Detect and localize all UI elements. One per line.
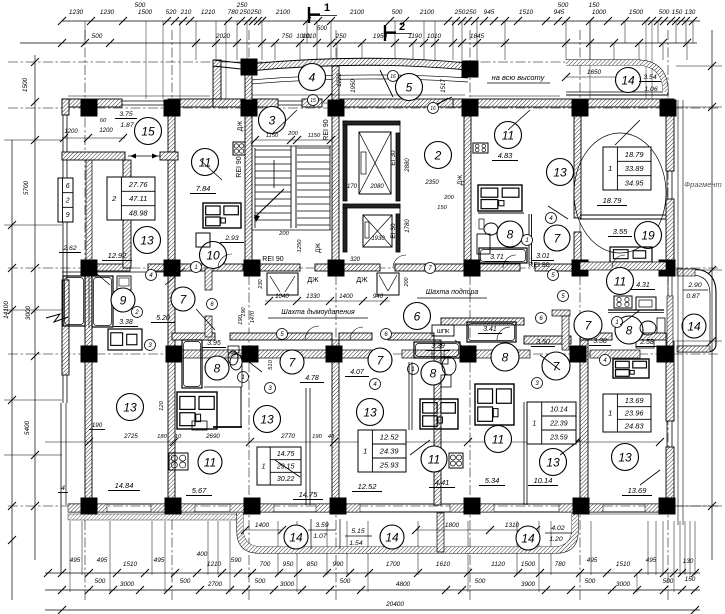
circle small c7 xyxy=(425,263,436,274)
washbasin E xyxy=(640,321,656,335)
svg-text:495: 495 xyxy=(70,557,81,564)
svg-text:150: 150 xyxy=(685,576,696,583)
svg-text:8: 8 xyxy=(214,361,221,375)
svg-text:2: 2 xyxy=(111,194,117,203)
balcony circle 14 left xyxy=(284,525,308,549)
wall apt2 bath xyxy=(478,212,524,214)
interior wall x580 upper xyxy=(574,107,581,218)
stair arrow xyxy=(254,189,284,218)
column rowE x667 xyxy=(659,498,676,515)
svg-text:1010: 1010 xyxy=(296,34,310,40)
svg-text:3: 3 xyxy=(269,113,276,127)
svg-text:945: 945 xyxy=(484,9,495,16)
circle small 16b xyxy=(428,103,439,114)
top dimension chain line 2 xyxy=(20,42,697,44)
svg-text:250: 250 xyxy=(250,9,262,16)
wall x208 lower xyxy=(205,316,212,337)
svg-text:130: 130 xyxy=(685,9,696,16)
left wall lower thin xyxy=(60,403,62,573)
svg-text:500: 500 xyxy=(659,9,670,16)
svg-text:5.34: 5.34 xyxy=(485,476,500,485)
svg-text:2.93: 2.93 xyxy=(224,235,238,242)
svg-text:190: 190 xyxy=(241,306,247,316)
svg-text:1330: 1330 xyxy=(306,293,320,300)
svg-text:4.78: 4.78 xyxy=(305,375,319,382)
right wall behind bay xyxy=(667,296,673,348)
svg-text:500: 500 xyxy=(255,578,266,585)
interior dim chain y442 xyxy=(45,441,660,443)
svg-text:4.41: 4.41 xyxy=(435,478,450,487)
stair wall right xyxy=(332,66,339,265)
partition D thin xyxy=(523,402,525,505)
svg-text:1: 1 xyxy=(194,265,197,271)
svg-text:2: 2 xyxy=(399,21,405,33)
svg-text:3.41: 3.41 xyxy=(483,326,497,333)
svg-text:500: 500 xyxy=(180,578,191,585)
circle 13 TL xyxy=(134,227,161,254)
svg-text:495: 495 xyxy=(97,557,108,564)
svg-text:12.52: 12.52 xyxy=(358,482,378,491)
circle 9 xyxy=(111,288,135,312)
column rowB x668 xyxy=(660,100,677,117)
TR wall y262 xyxy=(580,262,666,270)
right wall window b xyxy=(666,421,668,447)
svg-text:24.83: 24.83 xyxy=(624,421,645,430)
circle 2 xyxy=(425,142,452,169)
top exterior wall door gap xyxy=(322,102,340,104)
stair treads left flight xyxy=(255,149,291,151)
column rowD x334 xyxy=(326,346,343,363)
svg-text:22.39: 22.39 xyxy=(549,421,568,428)
svg-text:150: 150 xyxy=(437,205,447,211)
svg-text:500: 500 xyxy=(558,2,569,9)
circle 13 E xyxy=(612,444,639,471)
circle 11 topright xyxy=(495,122,522,149)
top exterior wall seg4 xyxy=(340,99,465,107)
svg-text:11: 11 xyxy=(428,452,440,466)
circle 13 D xyxy=(540,449,567,476)
circle 7 C2 xyxy=(368,348,392,372)
stair central divider xyxy=(290,146,292,228)
circle small 5b xyxy=(558,291,569,302)
svg-text:250: 250 xyxy=(236,2,248,9)
bottom wall hatch pad 2 xyxy=(151,504,195,512)
column rowB x89 xyxy=(81,100,98,117)
svg-text:3.39: 3.39 xyxy=(431,343,445,350)
top exterior wall right seg xyxy=(453,99,673,107)
washbasin apt2 xyxy=(484,223,498,235)
svg-text:14: 14 xyxy=(385,530,399,544)
svg-text:1.87: 1.87 xyxy=(120,122,133,129)
stove TL xyxy=(233,142,245,155)
top exterior wall window1 xyxy=(122,100,168,102)
svg-text:1: 1 xyxy=(262,464,266,471)
bottom wall thin left xyxy=(68,503,123,505)
top exterior wall seg3b xyxy=(302,99,322,107)
circle small 16t xyxy=(388,71,399,82)
interior wall x88 lower xyxy=(85,268,92,505)
top extension lines chain1 xyxy=(84,21,86,43)
svg-text:190: 190 xyxy=(238,314,244,324)
svg-text:1230: 1230 xyxy=(100,9,115,16)
svg-text:1200: 1200 xyxy=(64,129,78,135)
interior wall x336 lower xyxy=(332,340,339,505)
svg-text:Фрагмент: Фрагмент xyxy=(684,180,722,189)
corridor top wall xyxy=(92,264,130,271)
interior wall x577 lower xyxy=(580,340,588,505)
svg-text:1010: 1010 xyxy=(427,33,442,40)
circle small 1C xyxy=(408,364,419,375)
stove C xyxy=(449,453,463,468)
partition B thin xyxy=(305,388,307,505)
svg-text:19: 19 xyxy=(641,228,655,242)
bottom balcony slab band L xyxy=(68,514,237,520)
axis grid lines xyxy=(84,30,86,600)
bottom chain2 ticks xyxy=(58,586,66,594)
column rowE x173 xyxy=(165,498,182,515)
svg-text:2770: 2770 xyxy=(280,433,295,440)
corridor niche mid xyxy=(377,273,399,295)
svg-text:5.20: 5.20 xyxy=(156,315,170,322)
svg-text:6: 6 xyxy=(414,309,421,323)
svg-text:500: 500 xyxy=(392,9,403,16)
svg-text:590: 590 xyxy=(231,557,242,564)
svg-text:16: 16 xyxy=(390,74,396,80)
elevator car 2 xyxy=(363,215,392,247)
table T3 xyxy=(257,447,301,485)
svg-text:1: 1 xyxy=(615,320,618,326)
kitchen E xyxy=(613,359,649,378)
svg-text:5400: 5400 xyxy=(24,420,31,435)
svg-text:2: 2 xyxy=(65,198,70,205)
svg-text:400: 400 xyxy=(197,551,208,558)
circle 7 apt2 xyxy=(544,225,570,251)
circle small c5 xyxy=(277,329,288,340)
svg-text:500: 500 xyxy=(135,2,146,9)
top-right bay outline xyxy=(566,60,668,95)
circle small 3ml xyxy=(145,340,156,351)
left dim chain lines xyxy=(11,140,13,600)
svg-text:200: 200 xyxy=(443,195,454,201)
circle 11 C2 xyxy=(421,446,447,472)
svg-text:2880: 2880 xyxy=(405,158,411,173)
svg-text:700: 700 xyxy=(260,561,271,568)
balcony circle 14 top xyxy=(616,68,641,93)
wall hook D xyxy=(552,310,570,316)
bottom extension lines xyxy=(69,521,71,575)
top dimension chain line 1 xyxy=(62,20,700,22)
svg-text:1470: 1470 xyxy=(250,310,256,323)
washer E xyxy=(636,337,654,348)
svg-text:500: 500 xyxy=(663,578,674,585)
svg-text:3.01: 3.01 xyxy=(536,253,550,260)
svg-text:14: 14 xyxy=(521,531,535,545)
svg-text:1220: 1220 xyxy=(337,73,343,87)
svg-text:13: 13 xyxy=(363,405,377,419)
circle small 15t xyxy=(308,95,319,106)
svg-text:11: 11 xyxy=(492,432,504,446)
right exterior wall seg3 xyxy=(666,341,674,421)
corridor niche left xyxy=(267,273,298,295)
svg-text:1780: 1780 xyxy=(405,219,411,233)
column rowB x580 xyxy=(572,100,589,117)
svg-text:3.71: 3.71 xyxy=(490,254,504,261)
svg-text:945: 945 xyxy=(554,9,565,16)
svg-text:1000: 1000 xyxy=(592,9,607,16)
svg-text:120: 120 xyxy=(159,400,165,410)
column rowD x89 xyxy=(81,346,98,363)
left wall window3 xyxy=(62,375,64,403)
svg-text:33.89: 33.89 xyxy=(625,164,645,173)
left exterior wall seg3 xyxy=(62,280,69,375)
svg-text:495: 495 xyxy=(154,557,165,564)
svg-text:250: 250 xyxy=(465,9,477,16)
circle small 4E xyxy=(600,355,611,366)
kitchen B xyxy=(177,392,217,429)
column rowC x252 xyxy=(244,260,261,277)
circle 11 TR2 xyxy=(607,268,634,295)
circle 11 D xyxy=(485,426,512,453)
bottom wall hatch pad 5 xyxy=(450,504,494,512)
svg-text:9: 9 xyxy=(66,212,70,219)
interior wall x172 xyxy=(168,107,175,505)
svg-text:16: 16 xyxy=(430,106,436,112)
column rowB x172 xyxy=(164,100,181,117)
svg-text:495: 495 xyxy=(587,557,598,564)
top exterior wall seg3 xyxy=(213,99,278,107)
svg-text:1: 1 xyxy=(525,238,528,244)
svg-text:1930: 1930 xyxy=(371,236,385,242)
svg-text:4: 4 xyxy=(61,485,65,492)
svg-text:34.95: 34.95 xyxy=(625,179,645,188)
svg-text:1230: 1230 xyxy=(69,9,84,16)
svg-text:170: 170 xyxy=(347,184,358,190)
svg-text:1310: 1310 xyxy=(505,522,520,529)
column rowB x249 xyxy=(241,100,258,117)
svg-text:1510: 1510 xyxy=(519,9,534,16)
svg-text:14: 14 xyxy=(687,319,701,333)
svg-text:27.76: 27.76 xyxy=(128,180,149,189)
circle 4 xyxy=(299,64,326,91)
circle small 4ml xyxy=(146,270,157,281)
top arc bay inner line xyxy=(250,75,468,80)
svg-text:2080: 2080 xyxy=(369,184,384,190)
circle 7 D2 xyxy=(542,352,570,380)
svg-text:1250: 1250 xyxy=(297,239,303,253)
svg-text:4.83: 4.83 xyxy=(498,151,513,160)
stair flight edges xyxy=(254,148,256,228)
svg-text:20400: 20400 xyxy=(385,601,404,608)
stair wall left xyxy=(245,66,252,265)
svg-text:8: 8 xyxy=(502,350,509,364)
column rowE x89 xyxy=(81,498,98,515)
kitchen D2 xyxy=(475,384,514,425)
elevator car 1 xyxy=(359,132,391,194)
bottom wall hatch pad 1 xyxy=(68,504,107,512)
svg-text:1: 1 xyxy=(324,2,330,14)
stair treads right flight xyxy=(297,147,330,149)
svg-text:5.67: 5.67 xyxy=(192,486,207,495)
circle 8 apt2 xyxy=(497,221,523,247)
svg-text:3.54: 3.54 xyxy=(643,74,656,81)
top wall window2b xyxy=(278,100,302,102)
kitchen C xyxy=(420,399,458,429)
column rowC x667 xyxy=(659,260,676,277)
svg-text:2350: 2350 xyxy=(424,180,439,186)
svg-text:1210: 1210 xyxy=(201,9,216,16)
svg-text:510: 510 xyxy=(268,359,274,369)
circle 11 TL xyxy=(192,149,219,176)
svg-text:1210: 1210 xyxy=(207,561,222,568)
svg-text:6: 6 xyxy=(66,183,70,190)
bottom wall hatch pad 6 xyxy=(559,504,603,512)
svg-text:25.93: 25.93 xyxy=(379,461,400,470)
svg-text:13: 13 xyxy=(553,165,567,179)
svg-text:1.20: 1.20 xyxy=(549,536,562,543)
svg-text:1650: 1650 xyxy=(587,69,602,76)
svg-text:ДЖ: ДЖ xyxy=(237,121,244,131)
svg-text:850: 850 xyxy=(307,561,318,568)
svg-text:10: 10 xyxy=(175,434,182,440)
left wall window1 xyxy=(62,115,64,158)
circle small 6ml xyxy=(207,299,218,310)
kitchen TR xyxy=(610,247,652,262)
svg-text:150: 150 xyxy=(589,2,600,9)
svg-text:3.75: 3.75 xyxy=(119,111,132,118)
svg-text:1610: 1610 xyxy=(436,561,451,568)
column rowD x174 xyxy=(166,346,183,363)
svg-text:8: 8 xyxy=(430,366,437,380)
right exterior wall seg2 xyxy=(666,199,674,268)
bottom wall hatch pad 7 xyxy=(645,504,674,512)
svg-text:1.07: 1.07 xyxy=(313,533,326,540)
svg-text:24.39: 24.39 xyxy=(379,447,400,456)
right bay circle 14 xyxy=(682,314,706,338)
svg-text:2100: 2100 xyxy=(349,9,365,16)
svg-text:4.07: 4.07 xyxy=(350,369,365,376)
circle 7 ml xyxy=(171,287,195,311)
washer B xyxy=(192,421,207,430)
svg-text:5.15: 5.15 xyxy=(351,528,364,535)
circle small jC xyxy=(265,383,276,394)
column rowD x665 xyxy=(657,346,674,363)
svg-text:250: 250 xyxy=(239,9,251,16)
svg-text:1.54: 1.54 xyxy=(349,540,362,547)
svg-text:3900: 3900 xyxy=(521,581,536,588)
column rowC x336 xyxy=(328,260,345,277)
fragment circle xyxy=(574,133,666,253)
svg-text:500: 500 xyxy=(340,578,351,585)
svg-text:180: 180 xyxy=(157,434,167,440)
svg-text:520: 520 xyxy=(166,9,177,16)
top extension lines chain2 xyxy=(195,43,197,60)
svg-text:3.95: 3.95 xyxy=(207,340,221,347)
stove B small xyxy=(169,453,188,470)
svg-text:1400: 1400 xyxy=(339,293,353,300)
svg-text:10: 10 xyxy=(206,248,220,262)
svg-text:13.69: 13.69 xyxy=(625,396,645,405)
column rowE x581 xyxy=(573,498,590,515)
svg-text:1: 1 xyxy=(532,421,536,428)
svg-text:13: 13 xyxy=(260,412,274,426)
table T6 xyxy=(603,394,651,432)
svg-text:15: 15 xyxy=(310,98,316,104)
svg-text:500: 500 xyxy=(475,578,486,585)
svg-text:1500: 1500 xyxy=(521,561,536,568)
table T4 xyxy=(358,430,406,472)
circle small 4C xyxy=(370,379,381,390)
svg-text:1500: 1500 xyxy=(22,77,29,92)
washbasin D xyxy=(442,357,456,375)
svg-text:250: 250 xyxy=(335,33,347,40)
svg-text:11: 11 xyxy=(614,274,626,288)
left exterior wall seg1 xyxy=(62,99,69,115)
leader 7ml xyxy=(196,309,215,330)
circle small c6 xyxy=(381,329,392,340)
column top row x470 xyxy=(462,61,479,78)
table T2 xyxy=(603,147,651,190)
right exterior wall seg4 xyxy=(666,447,674,510)
circle small 6D xyxy=(536,313,547,324)
svg-text:1190: 1190 xyxy=(408,33,422,40)
svg-text:13: 13 xyxy=(123,400,137,414)
circle 8 E xyxy=(615,316,643,344)
circle 7 E xyxy=(574,311,602,339)
right dim chain xyxy=(711,30,713,560)
svg-text:2725: 2725 xyxy=(123,433,138,440)
column rowC x472 xyxy=(464,260,481,277)
bottom chain lines xyxy=(45,572,700,574)
svg-text:1120: 1120 xyxy=(491,561,505,568)
door leaf room5 xyxy=(380,70,393,97)
circle 8 C xyxy=(421,361,445,385)
svg-text:2.90: 2.90 xyxy=(687,282,701,289)
grid axis marker 1 xyxy=(308,7,310,23)
svg-text:3000: 3000 xyxy=(25,305,32,320)
circle 8 B xyxy=(205,356,229,380)
column rowD x578 xyxy=(570,346,587,363)
svg-text:4800: 4800 xyxy=(396,581,411,588)
circle 5 xyxy=(396,74,423,101)
bathroom block wall xyxy=(62,271,168,273)
column rowD x250 xyxy=(242,346,259,363)
wc E xyxy=(657,318,665,333)
partition between baths xyxy=(88,276,90,328)
svg-text:150: 150 xyxy=(672,9,683,16)
bottom exterior wall band xyxy=(123,503,674,505)
balcony divider wall xyxy=(437,513,444,552)
svg-text:3.38: 3.38 xyxy=(119,319,133,326)
top extension lines long xyxy=(145,21,147,99)
right exterior wall seg1 xyxy=(666,99,674,171)
svg-text:40: 40 xyxy=(328,434,335,440)
apt TL hall door xyxy=(128,155,160,157)
kitchen TL xyxy=(203,203,241,228)
table T0 left xyxy=(58,178,73,222)
svg-text:3.38: 3.38 xyxy=(593,338,607,345)
apt TL dim line xyxy=(62,137,125,139)
svg-text:2100: 2100 xyxy=(275,9,291,16)
svg-text:1510: 1510 xyxy=(123,561,138,568)
svg-text:8: 8 xyxy=(507,227,514,241)
svg-text:2.62: 2.62 xyxy=(62,245,76,252)
svg-text:1150: 1150 xyxy=(308,133,321,139)
washer TL xyxy=(196,233,210,247)
svg-text:23.96: 23.96 xyxy=(624,409,645,418)
svg-text:2.58: 2.58 xyxy=(639,339,654,346)
column rowB x336 xyxy=(328,100,345,117)
table T1 xyxy=(107,177,155,220)
